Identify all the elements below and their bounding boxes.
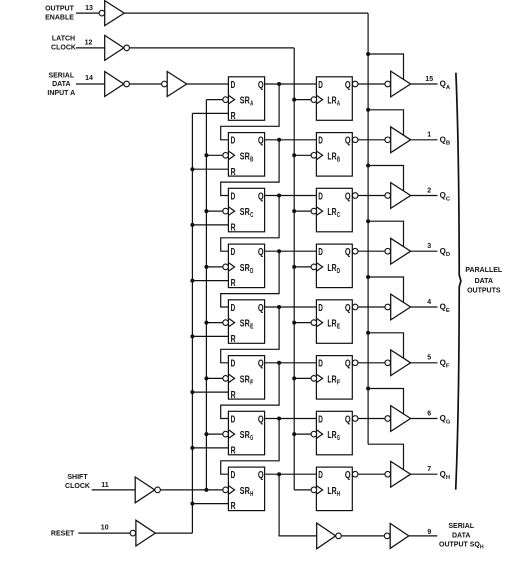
svg-text:SR: SR bbox=[240, 429, 250, 441]
svg-text:3: 3 bbox=[427, 243, 431, 250]
svg-text:R: R bbox=[231, 110, 236, 122]
svg-text:B: B bbox=[250, 154, 253, 163]
svg-text:H: H bbox=[337, 489, 340, 498]
svg-text:12: 12 bbox=[85, 40, 93, 47]
svg-text:Q: Q bbox=[345, 413, 351, 425]
svg-text:SR: SR bbox=[240, 151, 250, 163]
svg-text:Q: Q bbox=[258, 469, 264, 481]
svg-text:11: 11 bbox=[101, 482, 109, 489]
svg-text:F: F bbox=[337, 377, 341, 386]
svg-text:A: A bbox=[337, 99, 340, 108]
svg-text:E: E bbox=[337, 322, 340, 331]
svg-text:DATA: DATA bbox=[52, 81, 70, 88]
svg-text:SR: SR bbox=[240, 262, 250, 274]
svg-text:D: D bbox=[231, 79, 236, 91]
svg-text:E: E bbox=[250, 322, 253, 331]
svg-text:B: B bbox=[337, 154, 340, 163]
svg-text:OUTPUTS: OUTPUTS bbox=[467, 287, 501, 294]
svg-text:5: 5 bbox=[427, 355, 431, 362]
svg-text:SR: SR bbox=[240, 373, 250, 385]
svg-text:D: D bbox=[318, 469, 323, 481]
svg-text:ENABLE: ENABLE bbox=[45, 15, 74, 22]
svg-text:9: 9 bbox=[427, 529, 431, 536]
svg-text:R: R bbox=[231, 277, 236, 289]
svg-text:A: A bbox=[250, 99, 253, 108]
svg-text:Q: Q bbox=[258, 135, 264, 147]
svg-text:G: G bbox=[337, 433, 340, 442]
svg-text:15: 15 bbox=[425, 76, 433, 83]
svg-text:SR: SR bbox=[240, 206, 250, 218]
svg-text:INPUT A: INPUT A bbox=[47, 90, 75, 97]
svg-text:6: 6 bbox=[427, 410, 431, 417]
svg-text:D: D bbox=[250, 266, 253, 275]
svg-text:Q: Q bbox=[258, 79, 264, 91]
svg-text:2: 2 bbox=[427, 187, 431, 194]
svg-text:Q: Q bbox=[258, 413, 264, 425]
svg-text:Q: Q bbox=[345, 358, 351, 370]
svg-text:H: H bbox=[250, 489, 253, 498]
svg-text:LR: LR bbox=[327, 262, 336, 274]
svg-text:Q: Q bbox=[258, 190, 264, 202]
svg-text:R: R bbox=[231, 166, 236, 178]
svg-text:Q: Q bbox=[345, 246, 351, 258]
svg-text:D: D bbox=[231, 302, 236, 314]
svg-text:LR: LR bbox=[327, 206, 336, 218]
svg-text:D: D bbox=[318, 135, 323, 147]
svg-text:Q: Q bbox=[258, 302, 264, 314]
svg-text:Q: Q bbox=[345, 190, 351, 202]
svg-text:Q: Q bbox=[345, 135, 351, 147]
svg-text:D: D bbox=[231, 413, 236, 425]
svg-text:LATCH: LATCH bbox=[52, 36, 75, 43]
svg-text:RESET: RESET bbox=[51, 530, 75, 537]
svg-text:SHIFT: SHIFT bbox=[67, 474, 88, 481]
svg-text:R: R bbox=[231, 222, 236, 234]
svg-text:Q: Q bbox=[345, 302, 351, 314]
svg-text:SERIAL: SERIAL bbox=[448, 523, 474, 530]
svg-text:C: C bbox=[250, 210, 253, 219]
svg-text:F: F bbox=[250, 377, 254, 386]
svg-text:D: D bbox=[231, 469, 236, 481]
svg-text:SR: SR bbox=[240, 318, 250, 330]
svg-text:D: D bbox=[231, 358, 236, 370]
svg-text:Q: Q bbox=[258, 358, 264, 370]
svg-text:1: 1 bbox=[427, 132, 431, 139]
svg-text:Q: Q bbox=[345, 469, 351, 481]
svg-text:13: 13 bbox=[85, 5, 93, 12]
svg-text:LR: LR bbox=[327, 318, 336, 330]
svg-text:R: R bbox=[231, 333, 236, 345]
svg-text:SR: SR bbox=[240, 95, 250, 107]
svg-text:D: D bbox=[231, 190, 236, 202]
svg-text:D: D bbox=[318, 413, 323, 425]
svg-text:D: D bbox=[337, 266, 340, 275]
svg-text:G: G bbox=[250, 433, 253, 442]
svg-text:D: D bbox=[231, 135, 236, 147]
svg-text:Q: Q bbox=[345, 79, 351, 91]
svg-text:DATA: DATA bbox=[475, 278, 493, 285]
svg-text:LR: LR bbox=[327, 373, 336, 385]
svg-text:DATA: DATA bbox=[452, 533, 470, 540]
svg-text:SERIAL: SERIAL bbox=[48, 73, 74, 80]
svg-text:PARALLEL: PARALLEL bbox=[465, 267, 503, 274]
svg-text:D: D bbox=[318, 190, 323, 202]
svg-text:Q: Q bbox=[258, 246, 264, 258]
svg-text:7: 7 bbox=[427, 466, 431, 473]
svg-text:C: C bbox=[337, 210, 340, 219]
svg-text:R: R bbox=[231, 500, 236, 512]
svg-text:LR: LR bbox=[327, 485, 336, 497]
svg-text:D: D bbox=[318, 79, 323, 91]
svg-text:LR: LR bbox=[327, 429, 336, 441]
svg-text:D: D bbox=[231, 246, 236, 258]
svg-text:OUTPUT: OUTPUT bbox=[45, 6, 75, 13]
svg-text:LR: LR bbox=[327, 151, 336, 163]
svg-text:R: R bbox=[231, 445, 236, 457]
svg-text:SR: SR bbox=[240, 485, 250, 497]
svg-text:R: R bbox=[231, 389, 236, 401]
svg-text:CLOCK: CLOCK bbox=[51, 45, 76, 52]
svg-text:D: D bbox=[318, 246, 323, 258]
svg-text:D: D bbox=[318, 358, 323, 370]
svg-text:14: 14 bbox=[85, 75, 93, 82]
svg-text:LR: LR bbox=[327, 95, 336, 107]
svg-text:CLOCK: CLOCK bbox=[65, 483, 90, 490]
svg-text:D: D bbox=[318, 302, 323, 314]
svg-text:10: 10 bbox=[101, 525, 109, 532]
svg-text:4: 4 bbox=[427, 299, 431, 306]
